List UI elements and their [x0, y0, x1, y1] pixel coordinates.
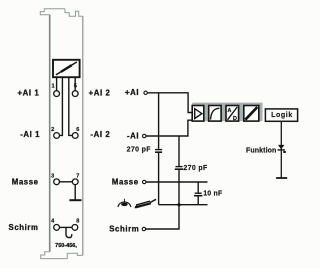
wire +AI branch down to C1	[158, 93, 160, 149]
wire transducer to terminal 6	[69, 78, 72, 136]
wire +AI to amplifier	[147, 93, 192, 113]
svg-text:3: 3	[51, 174, 54, 180]
terminal 1	[54, 91, 60, 97]
svg-text:A: A	[227, 108, 231, 114]
wire Masse to C3	[197, 182, 199, 193]
svg-text:5: 5	[74, 83, 77, 89]
svg-text:8: 8	[76, 219, 79, 225]
wire transducer to terminal 1	[56, 78, 58, 91]
terminal 7	[72, 179, 78, 185]
filter block	[209, 106, 221, 122]
galvanic isolation block	[244, 106, 259, 122]
function LED diode	[278, 145, 286, 153]
svg-text:+AI 2: +AI 2	[89, 89, 111, 98]
svg-text:270 pF: 270 pF	[183, 165, 208, 172]
shield clamp hook	[66, 227, 72, 237]
terminal 5	[72, 91, 78, 97]
node Masse terminal	[143, 180, 146, 183]
svg-text:Funktion: Funktion	[246, 148, 276, 155]
wire transducer to terminal 2	[60, 78, 63, 136]
wire C3 to shield rail	[197, 196, 199, 205]
capacitor C1 270 pF	[155, 150, 162, 153]
wire terminal 7 to ground bar	[74, 185, 76, 200]
wire shield rail segment	[159, 204, 208, 206]
terminal 3	[54, 179, 60, 185]
logic block Logik	[265, 109, 297, 121]
node -AI terminal	[143, 134, 146, 137]
wire Schirm line	[146, 228, 180, 230]
svg-text:10 nF: 10 nF	[203, 190, 223, 197]
svg-text:Masse: Masse	[12, 177, 39, 186]
svg-text:2: 2	[51, 127, 54, 133]
svg-text:-AI 1: -AI 1	[20, 130, 40, 139]
node +AI terminal	[144, 91, 147, 94]
module right edge	[82, 16, 84, 255]
svg-text:Schirm: Schirm	[109, 224, 139, 233]
svg-text:D: D	[233, 116, 237, 122]
capacitor C3 10 nF	[194, 193, 202, 196]
module left edge	[49, 15, 51, 252]
wire Masse line	[146, 181, 208, 183]
svg-text:+AI: +AI	[125, 88, 139, 97]
transducer symbol U1 (rect with diagonal)	[53, 60, 80, 77]
node Schirm terminal	[142, 227, 145, 230]
ground bar	[69, 199, 81, 201]
svg-text:-AI 2: -AI 2	[90, 130, 110, 139]
wire C2 down through junction to Schirm line	[178, 169, 180, 229]
capacitor C2 270 pF	[175, 167, 183, 170]
icon power jumper contact blade	[134, 199, 156, 208]
svg-text:270 pF: 270 pF	[127, 146, 152, 153]
svg-text:750-456,: 750-456,	[55, 243, 77, 249]
svg-text:7: 7	[76, 174, 79, 180]
module bottom housing profile	[41, 252, 83, 259]
junction shield node	[177, 203, 180, 206]
svg-text:Schirm: Schirm	[9, 223, 39, 232]
wire C1 down to shield rail	[158, 152, 160, 205]
terminal 4	[54, 225, 60, 231]
svg-text:-AI: -AI	[127, 132, 139, 141]
wire terminal 3 to terminal 7	[60, 181, 73, 183]
svg-text:Logik: Logik	[271, 112, 293, 119]
svg-text:1: 1	[51, 83, 54, 89]
icon functional earth arc	[118, 199, 131, 207]
wire end bar	[276, 177, 287, 179]
svg-text:6: 6	[76, 127, 79, 133]
wire transducer to terminal 5	[74, 78, 76, 91]
wire -AI branch down to C2	[178, 136, 180, 166]
module 750-456 top housing profile	[40, 9, 83, 16]
amplifier block	[192, 106, 204, 122]
terminal 2	[54, 133, 60, 139]
A/D converter block	[226, 106, 239, 122]
wire logic to function LED	[280, 121, 282, 178]
svg-text:Masse: Masse	[112, 177, 139, 186]
wire -AI to amplifier	[146, 120, 192, 136]
processing chain shadow	[192, 103, 262, 122]
terminal 6	[72, 133, 78, 139]
svg-text:+AI 1: +AI 1	[18, 89, 40, 98]
wire terminal 4 to terminal 8	[60, 226, 73, 228]
terminal 8	[72, 225, 78, 231]
